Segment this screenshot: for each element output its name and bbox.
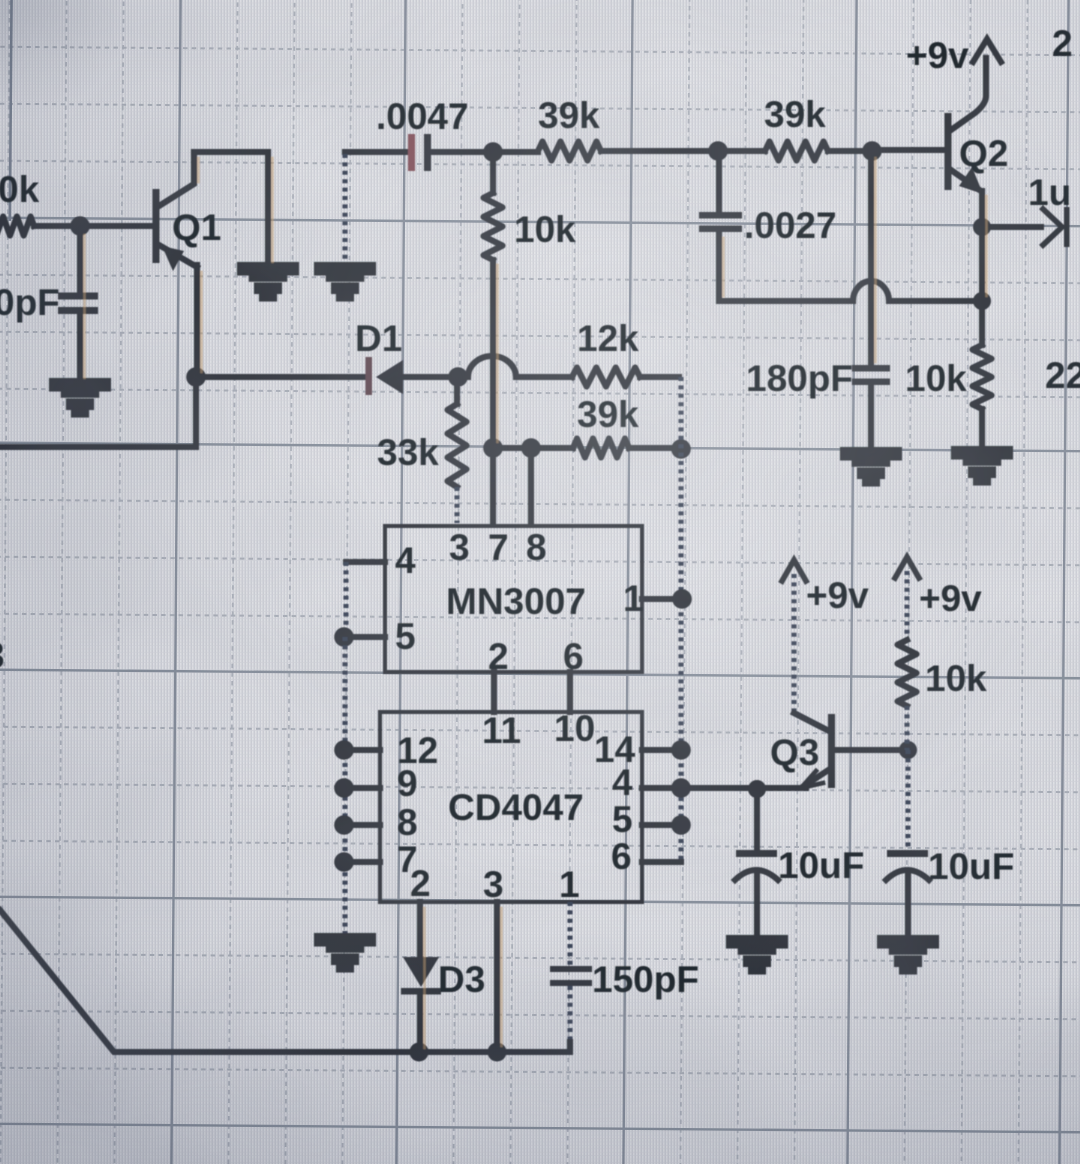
node R bbox=[671, 815, 691, 835]
wire node W down (dashed) bbox=[905, 750, 910, 850]
transistor Q3 bbox=[828, 714, 835, 788]
node Q bbox=[671, 778, 691, 798]
wire pin4 net to Q3 emitter bbox=[681, 785, 806, 791]
wire pin 6 bbox=[642, 859, 681, 865]
wire node H down to pin 8 bbox=[528, 448, 534, 523]
capacitor 10uF (first, polarized) bbox=[736, 850, 777, 857]
wire 12k to right bus bbox=[640, 374, 679, 380]
wire node G down to pin 7 bbox=[490, 448, 496, 523]
node G (pin7 net) bbox=[483, 438, 503, 458]
ground (left bus) bbox=[317, 936, 373, 970]
+9v arrow (10k) bbox=[895, 557, 919, 578]
wire Q1 emitter down bbox=[194, 265, 200, 377]
wire pin 7 bbox=[345, 859, 380, 865]
wire left bus pin4-pin5 (dashed) bbox=[343, 562, 348, 637]
wire right bus (dashed) bbox=[678, 377, 683, 862]
wire 33k to MN3007 pin 3 (dashed) bbox=[454, 487, 459, 523]
wire node B to D1 bbox=[196, 374, 366, 380]
wire fringes (photo chromatic aberration) bbox=[83, 235, 86, 378]
wire bottom rail bbox=[0, 910, 570, 1052]
wire node F down to 180pF bbox=[868, 151, 874, 365]
wire .0047 to node D bbox=[431, 149, 492, 155]
wire pin 2 down to D3 bbox=[417, 902, 423, 957]
wire pin 9 bbox=[345, 785, 380, 791]
wire left elbow of .0047 bbox=[345, 149, 408, 155]
wire emitter net down bbox=[979, 227, 985, 300]
wire node V to 10k and ground bbox=[979, 301, 985, 449]
wire 39k to node E bbox=[601, 148, 717, 154]
wire elbow down (dashed) bbox=[342, 154, 347, 265]
capacitor .0047 bbox=[408, 134, 415, 171]
node L bbox=[334, 740, 354, 760]
wire hop to node V bbox=[889, 298, 982, 304]
resistor 12k bbox=[572, 368, 640, 387]
+9v arrow (Q3 collector) bbox=[782, 560, 806, 581]
wire 10uF to ground bbox=[754, 876, 760, 938]
wire hop to 12k bbox=[516, 374, 572, 380]
wire D1 to node C bbox=[403, 374, 457, 380]
IC U1 MN3007 bbox=[385, 526, 642, 672]
ground (10uF second) bbox=[880, 938, 936, 972]
node X bbox=[748, 780, 766, 798]
wire node D down through 10k bbox=[490, 152, 496, 444]
wire Q1 collector top bbox=[194, 152, 268, 265]
wire hop over 180pF line bbox=[853, 281, 889, 301]
transistor Q1 bbox=[153, 189, 160, 263]
node V bbox=[973, 292, 991, 310]
ground (180pF) bbox=[843, 450, 899, 484]
ground (10uF first) bbox=[729, 938, 785, 972]
resistor 39k (third) bbox=[573, 439, 629, 458]
wire 33k top to node C bbox=[454, 377, 460, 404]
wire pin 5 stub bbox=[346, 634, 385, 640]
wire 39k to node F bbox=[828, 148, 871, 154]
node S bbox=[410, 1043, 429, 1062]
wire input to Q1 base bbox=[34, 223, 152, 229]
wire Q2 emitter down bbox=[979, 191, 985, 226]
ground (10k) bbox=[954, 449, 1010, 483]
resistor 39k (second) bbox=[765, 142, 828, 161]
transistor Q2 bbox=[945, 113, 952, 190]
wire pin 5 bbox=[642, 822, 681, 828]
wire .0027 down and right bbox=[719, 232, 853, 301]
capacitor 180pF bbox=[852, 365, 890, 372]
IC U2 CD4047 bbox=[380, 712, 642, 902]
wire 10uF to ground bbox=[905, 876, 911, 938]
capacitor 150pF bbox=[550, 966, 592, 972]
wire capacitor to ground bbox=[77, 314, 83, 383]
wire node E down bbox=[716, 151, 722, 212]
wire 39k to node I bbox=[629, 445, 679, 451]
resistor 10k (mid) bbox=[484, 193, 503, 260]
wire pin 4 bbox=[642, 785, 681, 791]
node T bbox=[488, 1043, 507, 1062]
wire node F to Q2 base bbox=[872, 147, 944, 153]
node P bbox=[671, 740, 691, 760]
wire pin 8 bbox=[345, 822, 380, 828]
resistor 33k bbox=[448, 404, 467, 487]
resistor 10k (bias) bbox=[898, 640, 917, 706]
ground (.0047 left) bbox=[317, 265, 373, 299]
wire pin 3 down bbox=[494, 902, 500, 1052]
node E bbox=[708, 141, 728, 161]
wire MN pin2 to CD pin11 bbox=[491, 672, 497, 712]
node J (MN3007 pin1) bbox=[672, 589, 692, 609]
node D bbox=[483, 142, 503, 162]
wire 10k to node W (dashed) bbox=[904, 706, 909, 750]
node W (10k/Q3 base) bbox=[899, 741, 917, 759]
ground (input cap) bbox=[52, 381, 108, 415]
node C bbox=[448, 367, 468, 387]
wire left bus down (dashed) bbox=[342, 637, 347, 936]
wire +9v to 10k (dashed) bbox=[904, 571, 909, 640]
wire node to capacitor bbox=[77, 226, 83, 292]
wire node D to 39k bbox=[493, 149, 538, 155]
node K (pin5/left bus) bbox=[334, 627, 354, 647]
wire pin 4 to left bus bbox=[346, 559, 385, 565]
capacitor 1u (output, partial) bbox=[1043, 209, 1062, 245]
node H (pin8 net) bbox=[521, 438, 541, 458]
wire 180pF to ground bbox=[868, 385, 874, 450]
resistor 39k (first) bbox=[538, 142, 601, 161]
node I (right bus top) bbox=[671, 439, 691, 459]
diode D1 bbox=[366, 357, 373, 395]
resistor 10k (Q2 emitter) bbox=[973, 345, 992, 409]
node N bbox=[334, 815, 354, 835]
wire 150pF down (dashed) bbox=[567, 986, 572, 1042]
wire pin 12 bbox=[345, 747, 380, 753]
capacitor 10uF (second, polarized) bbox=[887, 850, 928, 857]
wire +9v down to Q3 (dashed) bbox=[791, 574, 796, 713]
wire node C to hop bbox=[458, 374, 468, 380]
wire node H to 39k third bbox=[531, 445, 573, 451]
wire output bbox=[982, 224, 1041, 230]
wire MN pin6 to CD pin10 bbox=[567, 672, 573, 712]
capacitor .0027 bbox=[699, 212, 742, 219]
capacitor 0pF (partial label) bbox=[58, 293, 98, 300]
wire node G to node H bbox=[493, 445, 531, 451]
node M bbox=[334, 778, 354, 798]
node F (Q2 base net) bbox=[862, 141, 882, 161]
diode D3 bbox=[403, 957, 439, 987]
wire hop over vertical bbox=[468, 356, 516, 377]
wire D3 to bottom rail bbox=[417, 994, 423, 1052]
wire node B down to left rail bbox=[0, 377, 196, 447]
ground (Q1 collector) bbox=[240, 265, 296, 299]
node U (output) bbox=[973, 218, 991, 236]
wire Q3 base bbox=[835, 747, 906, 753]
node A (input/cap junction) bbox=[70, 216, 90, 236]
wire MN3007 pin1 bbox=[642, 596, 681, 602]
node B (emitter / D1 junction) bbox=[186, 367, 206, 387]
resistor 10k (input, partial at left edge) bbox=[0, 217, 34, 236]
wire node E to 39k second bbox=[718, 148, 765, 154]
+9v arrow (Q2 collector) bbox=[973, 39, 1001, 62]
node O bbox=[334, 852, 354, 872]
wire pin 1 down (dashed) bbox=[567, 902, 572, 965]
wire pin 14 bbox=[642, 747, 681, 753]
wire node X down bbox=[754, 789, 760, 850]
